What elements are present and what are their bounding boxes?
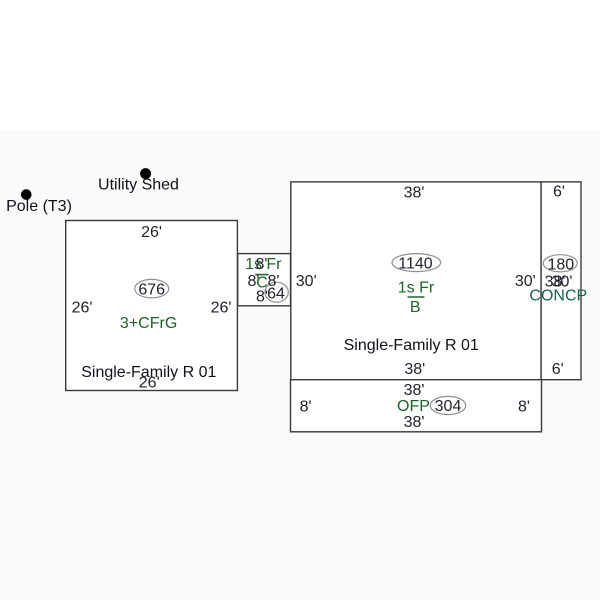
svg-text:6': 6'	[552, 361, 564, 378]
svg-text:8': 8'	[256, 256, 268, 273]
area oval 676	[135, 279, 169, 298]
svg-text:1s Fr: 1s Fr	[398, 279, 435, 296]
utility shed point marker	[140, 168, 151, 179]
svg-text:38': 38'	[404, 382, 425, 399]
svg-text:38': 38'	[404, 414, 425, 431]
svg-text:26': 26'	[139, 374, 160, 391]
svg-text:304: 304	[435, 398, 462, 415]
pole point marker	[21, 189, 32, 200]
svg-text:26': 26'	[72, 299, 93, 316]
area oval 64	[265, 282, 288, 302]
svg-text:Utility Shed: Utility Shed	[98, 176, 179, 193]
building A outline (26x26 dwelling)	[66, 221, 238, 391]
svg-text:1140: 1140	[398, 256, 433, 273]
svg-text:8': 8'	[518, 398, 530, 415]
area oval 1140	[392, 254, 441, 272]
svg-text:Single-Family R 01: Single-Family R 01	[344, 337, 479, 354]
area oval 304	[430, 396, 465, 414]
building B outline (38x30 dwelling)	[291, 182, 541, 380]
svg-text:26': 26'	[211, 299, 232, 316]
svg-text:Pole (T3): Pole (T3)	[6, 198, 72, 215]
svg-text:OFP: OFP	[397, 398, 430, 415]
svg-text:CONCP: CONCP	[529, 287, 587, 304]
svg-text:180: 180	[547, 257, 574, 274]
addition C outline (8x8)	[238, 254, 291, 306]
svg-text:38': 38'	[404, 185, 425, 202]
svg-text:B: B	[410, 299, 421, 316]
svg-text:26': 26'	[141, 224, 162, 241]
macron over C	[255, 274, 268, 276]
macron over B	[408, 296, 425, 298]
area oval 180	[543, 255, 577, 272]
svg-text:3+CFrG: 3+CFrG	[120, 315, 177, 332]
svg-text:30': 30'	[296, 273, 317, 290]
open frame porch outline (38x8 OFP)	[291, 380, 542, 432]
svg-text:38': 38'	[404, 361, 425, 378]
sketch panel background	[0, 130, 600, 600]
svg-text:64: 64	[267, 286, 285, 303]
svg-text:8': 8'	[300, 398, 312, 415]
concrete patio outline (6x30 CONCP)	[541, 182, 581, 380]
svg-text:6': 6'	[553, 184, 565, 201]
svg-text:676: 676	[138, 281, 165, 298]
